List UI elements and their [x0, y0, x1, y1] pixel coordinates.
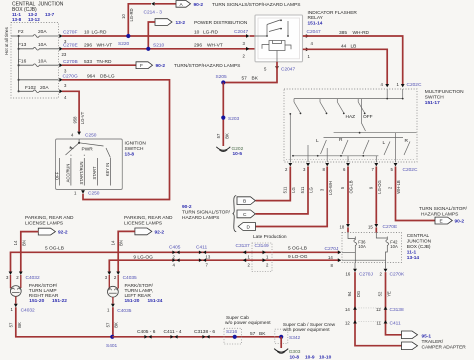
multifunction switch internals — [290, 89, 416, 162]
multifunction switch dashed box — [284, 89, 464, 162]
svg-text:with power equipment: with power equipment — [283, 327, 330, 333]
svg-text:C3138: C3138 — [390, 307, 404, 313]
wire 296 WH-VT left — [62, 42, 255, 48]
svg-text:92-2: 92-2 — [155, 229, 165, 235]
svg-text:13-8: 13-8 — [12, 17, 22, 22]
svg-text:92-2: 92-2 — [58, 230, 68, 236]
svg-text:C202C: C202C — [407, 82, 422, 88]
right rear lamp C4032 pins 3 2 — [6, 272, 40, 282]
svg-text:R: R — [339, 137, 343, 143]
svg-text:LICENSE LAMPS: LICENSE LAMPS — [124, 221, 162, 227]
inline connector C411 pins 12 / 11 — [345, 320, 401, 326]
svg-text:START: START — [92, 166, 97, 180]
arrow C — [237, 210, 255, 218]
svg-text:11-1: 11-1 — [407, 250, 417, 256]
svg-text:CAMPER ADAPTER: CAMPER ADAPTER — [422, 344, 467, 350]
svg-text:B: B — [243, 199, 246, 205]
svg-text:533: 533 — [84, 59, 92, 65]
trailer/camper adapter stubs — [402, 331, 467, 350]
svg-text:C214 - 3: C214 - 3 — [144, 9, 163, 15]
svg-text:385: 385 — [339, 30, 347, 36]
svg-text:F: F — [140, 63, 143, 69]
wire 14 BN to right rear lamp pin 2 — [13, 232, 38, 272]
relay ground pin 5 C2047 — [223, 62, 295, 83]
connector C250 pin 4 (ignition top) — [71, 132, 97, 139]
svg-text:LG-RD: LG-RD — [129, 8, 134, 21]
wire up from S220 to A arrow — [121, 4, 176, 36]
splice S203 — [221, 116, 239, 122]
90-2 turn signal/stop hazard lamps label (center) — [182, 204, 231, 221]
svg-text:10A: 10A — [390, 244, 398, 249]
svg-text:PWR: PWR — [82, 147, 94, 153]
svg-text:Late Production: Late Production — [253, 234, 287, 240]
svg-text:90-2: 90-2 — [194, 2, 204, 8]
svg-text:C250: C250 — [85, 133, 97, 139]
svg-text:C202C: C202C — [403, 167, 418, 173]
svg-text:16: 16 — [346, 271, 351, 276]
connector C270F pin 3 — [59, 30, 77, 45]
svg-text:PARKING, REAR AND: PARKING, REAR AND — [124, 215, 173, 221]
fuse F36 10A — [348, 233, 366, 263]
CJB internal pass-through lines — [342, 252, 386, 260]
svg-text:START/RUN: START/RUN — [79, 161, 84, 184]
splice S210 — [146, 43, 164, 51]
wire 57 BK label — [250, 331, 266, 337]
svg-text:LG-RD: LG-RD — [92, 30, 107, 36]
svg-text:10: 10 — [194, 30, 200, 36]
svg-text:95-1: 95-1 — [422, 333, 432, 339]
wire from 13-2 arrow down to S210 — [148, 22, 155, 49]
svg-text:WH-VT: WH-VT — [97, 42, 113, 48]
svg-text:BK: BK — [114, 322, 119, 328]
svg-text:CENTRAL: CENTRAL — [407, 233, 430, 239]
ground wire 57 BK from right rear lamp — [9, 307, 113, 337]
svg-text:MULTIFUNCTION: MULTIFUNCTION — [425, 89, 464, 95]
svg-text:296: 296 — [194, 42, 202, 48]
inline connector C214 pin 3 — [144, 2, 163, 16]
connector C270K pin 2 (bottom) — [380, 263, 405, 278]
svg-text:20A: 20A — [38, 29, 47, 35]
svg-text:151-22: 151-22 — [52, 298, 67, 304]
svg-text:10A: 10A — [38, 58, 47, 64]
svg-text:5 OG-LB: 5 OG-LB — [288, 246, 307, 252]
parking rear and license lamps label 2 — [124, 215, 173, 227]
internal feed line row4 — [19, 79, 59, 81]
arrow F to 90-2 turn/stop/hazard lamps — [136, 62, 240, 69]
svg-text:BK: BK — [17, 322, 22, 328]
ground G303 — [274, 337, 331, 360]
svg-text:57: 57 — [9, 322, 14, 327]
svg-text:C270G: C270G — [63, 73, 78, 79]
svg-text:18: 18 — [340, 225, 345, 230]
svg-text:TURN SIGNAL/STOP/: TURN SIGNAL/STOP/ — [182, 210, 231, 216]
svg-text:958: 958 — [72, 116, 77, 124]
svg-text:POWER DISTRIBUTION: POWER DISTRIBUTION — [194, 20, 248, 26]
svg-text:10: 10 — [121, 14, 126, 19]
central junction box CJB (bottom right) — [342, 233, 432, 263]
svg-text:10-5: 10-5 — [233, 151, 243, 157]
svg-text:BK: BK — [224, 133, 229, 139]
svg-text:C270J: C270J — [325, 246, 339, 252]
wire 964 DB-LG — [62, 73, 170, 199]
svg-text:S210: S210 — [153, 43, 165, 49]
wire 10 LG-RD left — [62, 30, 246, 36]
wire bus 9 LG-OG — [109, 254, 338, 272]
svg-text:151-20: 151-20 — [125, 298, 140, 304]
svg-text:151-24: 151-24 — [148, 298, 163, 304]
ground bus wire to S342 — [112, 336, 281, 338]
svg-text:13-2: 13-2 — [176, 20, 186, 26]
svg-text:JUNCTION: JUNCTION — [407, 239, 432, 245]
svg-text:F16: F16 — [18, 58, 27, 64]
wire 9 LG-OG pin7 to C270E 15 — [368, 167, 382, 224]
svg-text:KEY IN: KEY IN — [105, 163, 110, 176]
fuse F2 20A — [11, 29, 59, 37]
svg-text:C411: C411 — [390, 321, 401, 327]
svg-text:S216: S216 — [226, 329, 238, 335]
svg-text:10-8: 10-8 — [290, 355, 300, 360]
splice S220 — [118, 34, 130, 47]
svg-text:C270F: C270F — [63, 30, 77, 36]
svg-text:511: 511 — [300, 186, 305, 193]
svg-text:DG: DG — [356, 291, 361, 297]
svg-text:C3149: C3149 — [255, 243, 269, 249]
arrow 92-2 (right rear park feed) — [38, 228, 68, 235]
svg-text:13-7: 13-7 — [45, 12, 55, 17]
wire 385 WH-RD to multifunction switch — [303, 30, 403, 84]
indicator flasher relay U1 box — [255, 10, 357, 62]
svg-text:PARKING, REAR AND: PARKING, REAR AND — [25, 215, 74, 221]
ground wire from left rear lamp to S401 — [105, 307, 118, 337]
svg-text:LG-RD: LG-RD — [203, 30, 218, 36]
svg-text:w/o power equipment: w/o power equipment — [225, 320, 271, 326]
svg-text:BK: BK — [252, 76, 259, 82]
connector C270G pin 3 — [59, 73, 78, 88]
svg-text:94: 94 — [347, 291, 352, 296]
svg-text:10-10: 10-10 — [319, 355, 332, 360]
svg-text:151-20: 151-20 — [29, 298, 44, 304]
svg-text:HAZARD LAMPS: HAZARD LAMPS — [421, 211, 458, 217]
connector C270J pin 16 (bottom) — [346, 263, 374, 278]
svg-text:C4032: C4032 — [26, 275, 40, 281]
svg-text:10-9: 10-9 — [305, 355, 315, 360]
wire 52 YE trailer right — [378, 272, 402, 335]
svg-text:13-8: 13-8 — [125, 152, 135, 158]
svg-text:90-2: 90-2 — [455, 219, 465, 225]
svg-text:HAZARD LAMPS: HAZARD LAMPS — [182, 215, 219, 221]
svg-text:WH-RD: WH-RD — [353, 30, 370, 36]
left rear lamp C4035 pins 3 2 — [105, 272, 137, 282]
svg-text:G303: G303 — [289, 349, 301, 355]
svg-text:90-2: 90-2 — [156, 63, 166, 69]
svg-text:13-12: 13-12 — [28, 17, 40, 22]
svg-text:12: 12 — [376, 307, 381, 312]
svg-text:C270E: C270E — [383, 224, 398, 230]
splice S205 — [216, 74, 228, 85]
wire 94 DG trailer left — [347, 272, 401, 346]
connector C250 pin 1 (ignition bottom) — [74, 190, 100, 196]
svg-text:LG-VT: LG-VT — [80, 111, 85, 124]
svg-text:52: 52 — [378, 291, 383, 296]
ground wire down from S205 — [216, 83, 229, 147]
svg-text:57: 57 — [105, 322, 110, 327]
svg-text:296: 296 — [84, 42, 92, 48]
svg-text:C2047: C2047 — [234, 29, 248, 35]
svg-text:964: 964 — [87, 73, 95, 79]
svg-text:BOX (CJB): BOX (CJB) — [407, 244, 431, 250]
svg-text:9 LO-OG: 9 LO-OG — [288, 254, 308, 260]
arrow 92-2 (left rear park feed) — [135, 228, 165, 235]
inline connector C3138 - 6 — [194, 329, 215, 338]
svg-text:TURN SIGNALS/STOP/HAZARD LAMPS: TURN SIGNALS/STOP/HAZARD LAMPS — [212, 2, 300, 8]
wire 511 LG pin2 to arrow B — [256, 167, 297, 201]
svg-text:L: L — [316, 138, 319, 144]
left rear lamp pin 1 C4035 — [107, 297, 132, 314]
svg-text:TURN/STOP/HAZARD LAMPS: TURN/STOP/HAZARD LAMPS — [174, 63, 240, 69]
bus arrows into CJB C270J pins 14 and 8 — [325, 246, 342, 268]
park/stop/turn lamp right rear (bulb) — [10, 275, 67, 304]
svg-text:C2047: C2047 — [307, 29, 321, 35]
connector C270E pins 18 15 (CJB bottom right top) — [340, 224, 398, 233]
central junction box CJB (top-left) title — [12, 1, 64, 22]
svg-text:C3138 - 6: C3138 - 6 — [194, 329, 215, 335]
svg-text:10: 10 — [84, 30, 90, 36]
svg-text:C4035: C4035 — [123, 275, 137, 281]
svg-text:151-17: 151-17 — [425, 100, 440, 106]
svg-text:C270B: C270B — [63, 59, 78, 65]
svg-text:57: 57 — [250, 331, 256, 337]
svg-text:L: L — [383, 140, 386, 146]
fuse F102 20A — [19, 85, 59, 93]
brace for B C D — [233, 196, 237, 232]
svg-text:LG: LG — [291, 187, 296, 193]
svg-text:14: 14 — [345, 307, 350, 312]
svg-text:BN: BN — [119, 240, 124, 246]
svg-text:LG-OG: LG-OG — [377, 180, 382, 194]
splice S342 (super cab / super crew with power equipment) — [275, 322, 336, 344]
svg-text:F2: F2 — [18, 29, 24, 35]
wire 296 WH-VT right label — [194, 42, 249, 58]
svg-text:BK: BK — [259, 331, 266, 337]
arrow B — [237, 197, 255, 205]
svg-text:151-14: 151-14 — [308, 21, 323, 27]
svg-text:C270E: C270E — [63, 42, 78, 48]
wire 533 TN-RD — [62, 59, 136, 65]
svg-text:23: 23 — [62, 52, 67, 57]
svg-text:RELAY: RELAY — [308, 15, 324, 21]
ignition PWR and position labels — [54, 147, 110, 185]
late production connector C3137 / C3149 — [236, 234, 287, 272]
svg-text:SWITCH: SWITCH — [125, 146, 144, 152]
svg-text:C270J: C270J — [359, 271, 373, 277]
svg-text:13-14: 13-14 — [407, 255, 420, 261]
svg-text:TN-RD: TN-RD — [97, 59, 112, 65]
svg-text:IGNITION: IGNITION — [125, 141, 147, 147]
connector C270G pin 4 — [59, 89, 67, 100]
svg-text:OG-LB: OG-LB — [349, 180, 354, 193]
wire 3 LG-WH pin8 to arrow D — [256, 167, 333, 227]
splice S401 — [106, 335, 118, 349]
HAZ OFF L R labels — [316, 114, 409, 146]
svg-text:F13: F13 — [18, 42, 27, 48]
svg-text:57: 57 — [216, 133, 221, 138]
parking rear and license lamps label 1 — [25, 215, 74, 227]
fuse F16 10A — [18, 58, 59, 66]
svg-text:ACC/RUN: ACC/RUN — [66, 164, 71, 183]
svg-text:WH-LB: WH-LB — [396, 180, 401, 194]
connector C270B pin 3 — [59, 59, 77, 74]
relay internal circuit — [255, 20, 291, 62]
svg-text:C411 - 4: C411 - 4 — [164, 329, 182, 335]
inline connector C3138 pins 14 / 12 — [345, 306, 404, 312]
svg-text:10A: 10A — [38, 42, 47, 48]
ignition switch box — [56, 139, 147, 190]
arrow E to 90-2 — [419, 206, 468, 225]
svg-text:C4032: C4032 — [21, 307, 35, 313]
svg-text:E: E — [440, 219, 443, 225]
wire 511 LG pin3 to arrow C — [256, 167, 314, 214]
svg-text:YE: YE — [386, 291, 391, 297]
relay right side C2047 pins 4 and 1 — [306, 29, 321, 59]
svg-text:OFF: OFF — [54, 171, 59, 180]
svg-text:S401: S401 — [106, 343, 118, 349]
wire 44 LB to multifunction switch — [303, 43, 387, 84]
arrow A to 90-2 — [176, 1, 300, 8]
svg-text:14: 14 — [328, 255, 333, 260]
svg-text:S203: S203 — [228, 116, 240, 122]
connector C202C bottom pins 2 3 8 6 7 5 — [285, 163, 418, 173]
svg-text:C4035: C4035 — [117, 308, 131, 314]
svg-text:15: 15 — [368, 225, 373, 230]
svg-text:14: 14 — [110, 240, 115, 245]
wire 14 BN to left rear lamp pin 2 — [110, 231, 134, 271]
wire 5 OG-LB pin6 to C270E 18 — [340, 167, 354, 224]
svg-text:TURN SIGNAL/STOP/: TURN SIGNAL/STOP/ — [419, 206, 468, 212]
fuse F13 10A — [18, 42, 59, 50]
ground G202 — [216, 146, 243, 157]
svg-text:S342: S342 — [289, 335, 301, 341]
svg-text:C2047: C2047 — [281, 66, 295, 72]
svg-text:20A: 20A — [40, 85, 49, 91]
svg-text:R: R — [405, 138, 409, 144]
svg-text:14: 14 — [13, 240, 18, 245]
svg-text:57: 57 — [242, 76, 248, 82]
svg-text:C250: C250 — [88, 191, 100, 197]
arrow 13-2 power distribution — [155, 19, 248, 26]
splice S216 (super cab w/o power equipment) — [224, 315, 271, 344]
svg-text:511: 511 — [282, 186, 287, 193]
svg-text:WH-VT: WH-VT — [207, 42, 223, 48]
fuse F42 10A — [376, 233, 398, 263]
inline connector C405 (buses) — [169, 245, 181, 268]
connector C270E pin 23 — [59, 42, 77, 57]
svg-text:S205: S205 — [216, 74, 228, 80]
svg-text:C405 - 6: C405 - 6 — [137, 329, 156, 335]
ignition switch internals — [60, 139, 111, 186]
svg-text:SWITCH: SWITCH — [425, 95, 444, 101]
svg-text:C3137: C3137 — [236, 243, 250, 249]
svg-text:90-2: 90-2 — [182, 204, 192, 210]
arrow D — [238, 223, 255, 231]
svg-text:11: 11 — [377, 321, 382, 326]
inline connector C405 - 6 — [137, 329, 156, 338]
svg-text:S220: S220 — [118, 41, 130, 47]
svg-text:C270K: C270K — [390, 271, 405, 277]
right rear lamp pin 1 C4032 — [11, 296, 36, 313]
svg-text:12: 12 — [345, 321, 350, 326]
svg-text:BN: BN — [21, 240, 26, 246]
svg-text:OFF: OFF — [363, 114, 373, 120]
svg-text:10A: 10A — [358, 244, 366, 249]
svg-text:G202: G202 — [232, 146, 244, 152]
svg-text:D: D — [247, 225, 251, 231]
svg-text:C405: C405 — [169, 245, 181, 251]
svg-text:INDICATOR FLASHER: INDICATOR FLASHER — [308, 10, 358, 16]
inline connector C411 (buses) — [196, 245, 211, 268]
wire 958 LG-VT to ignition switch — [62, 91, 85, 131]
wire 10 LG-RD right label — [194, 29, 255, 46]
svg-text:LICENSE LAMPS: LICENSE LAMPS — [25, 221, 63, 227]
svg-text:C: C — [243, 212, 247, 218]
svg-text:DB-LG: DB-LG — [100, 73, 115, 79]
CJB internal feed bus — [18, 36, 20, 91]
svg-text:C411: C411 — [196, 245, 207, 251]
svg-text:5 OG-LB: 5 OG-LB — [45, 246, 64, 252]
park/stop/turn lamp left rear (bulb) — [108, 275, 163, 304]
svg-text:13: 13 — [206, 255, 211, 260]
wire 2 WH-LB pin5 to arrow E — [388, 167, 435, 221]
svg-text:HAZ: HAZ — [346, 114, 356, 120]
CJB dashed box — [11, 23, 59, 99]
connector C202C pins 4 and 1 (top) — [381, 82, 422, 88]
wire bus 5 OG-LB — [11, 246, 339, 272]
svg-text:Hot at all times: Hot at all times — [4, 27, 9, 55]
inline connector C411 - 4 — [164, 329, 182, 338]
svg-text:TRAILER/: TRAILER/ — [422, 339, 444, 345]
svg-text:LG-WH: LG-WH — [328, 181, 333, 195]
svg-text:LG: LG — [309, 187, 314, 193]
